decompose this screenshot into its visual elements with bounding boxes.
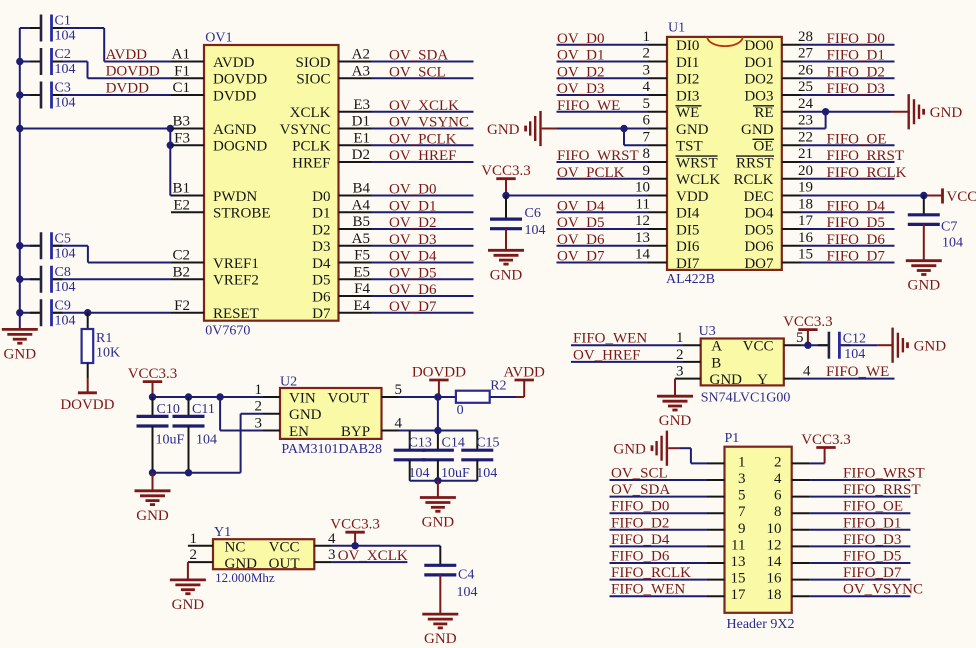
svg-text:FIFO_D4: FIFO_D4 — [827, 198, 886, 214]
svg-text:D5: D5 — [312, 273, 330, 289]
svg-text:VCC3.3: VCC3.3 — [481, 163, 531, 179]
OV1 pin B2 VREF2 — [171, 264, 259, 288]
P1 pin 15 — [610, 565, 746, 587]
wire U2 EN pin3 to VIN — [220, 430, 263, 432]
svg-text:C15: C15 — [476, 436, 499, 451]
svg-text:Y: Y — [757, 372, 768, 388]
wire U1 pin19 to VCC — [801, 195, 924, 197]
svg-text:XCLK: XCLK — [290, 105, 331, 121]
svg-text:C11: C11 — [192, 402, 215, 417]
ground GND below C7 — [906, 259, 942, 262]
svg-text:OV_XCLK: OV_XCLK — [389, 98, 459, 114]
svg-text:GND: GND — [676, 122, 709, 138]
svg-text:2: 2 — [774, 454, 782, 470]
capacitor C3 — [20, 81, 171, 111]
resistor R1 10K — [82, 313, 121, 393]
regulator IC U2 PAM3101DAB28 body — [280, 388, 382, 439]
capacitor C9 — [20, 298, 171, 328]
svg-text:F4: F4 — [354, 281, 370, 297]
OV1 pin C1 DVDD — [171, 80, 256, 104]
svg-text:DI3: DI3 — [676, 88, 699, 104]
svg-text:18: 18 — [798, 196, 813, 212]
OV1 pin D2 HREF / net OV_HREF — [292, 147, 473, 171]
svg-text:11: 11 — [731, 537, 745, 553]
U1 pin 15 DO7 — [744, 247, 894, 272]
svg-text:14: 14 — [635, 247, 651, 263]
U1 pin 17 DO5 — [744, 213, 894, 238]
svg-text:C2: C2 — [55, 47, 71, 62]
svg-text:DO5: DO5 — [744, 222, 773, 238]
svg-text:104: 104 — [55, 29, 76, 44]
svg-text:D4: D4 — [312, 256, 331, 272]
svg-text:2: 2 — [255, 399, 263, 415]
svg-text:C14: C14 — [442, 436, 465, 451]
svg-text:FIFO_WRST: FIFO_WRST — [557, 148, 639, 164]
svg-text:104: 104 — [55, 62, 76, 77]
U1 pin 1 DI0 — [557, 29, 700, 54]
svg-text:104: 104 — [409, 466, 430, 481]
svg-text:4: 4 — [803, 364, 811, 380]
svg-text:A: A — [711, 339, 722, 355]
Y1 pin 3 OUT / net OV_XCLK — [314, 547, 408, 564]
svg-text:OV_D2: OV_D2 — [389, 215, 437, 231]
svg-text:OV_SDA: OV_SDA — [611, 482, 670, 498]
svg-text:9: 9 — [738, 521, 746, 537]
svg-text:8: 8 — [774, 504, 782, 520]
Y1 pin 4 VCC wire — [314, 531, 440, 566]
P1 pin 7 — [610, 499, 747, 521]
svg-text:D7: D7 — [312, 306, 331, 322]
svg-text:GND: GND — [422, 515, 455, 531]
svg-text:PAM3101DAB28: PAM3101DAB28 — [281, 442, 382, 457]
svg-text:FIFO_D7: FIFO_D7 — [827, 249, 886, 265]
junction dot pin6/7 — [620, 125, 627, 132]
svg-text:DO7: DO7 — [744, 256, 774, 272]
capacitor C12 104 — [818, 332, 892, 362]
svg-text:D2: D2 — [312, 222, 330, 238]
svg-text:AVDD: AVDD — [106, 47, 148, 63]
P1 pin 3 — [610, 466, 746, 488]
svg-text:GND: GND — [4, 346, 37, 362]
svg-text:FIFO_D4: FIFO_D4 — [611, 532, 670, 548]
svg-text:A1: A1 — [172, 47, 190, 63]
svg-text:FIFO_D3: FIFO_D3 — [843, 532, 901, 548]
OV1 pin B5 D2 / net OV_D2 — [312, 214, 473, 238]
svg-text:104: 104 — [55, 96, 76, 111]
svg-text:16: 16 — [767, 571, 783, 587]
svg-text:DO1: DO1 — [744, 55, 773, 71]
svg-text:VOUT: VOUT — [328, 390, 370, 406]
svg-text:A4: A4 — [352, 197, 371, 213]
svg-text:EN: EN — [289, 424, 309, 440]
U1 pin 28 DO0 — [744, 29, 894, 54]
U1 pin 25 DO3 — [744, 79, 894, 104]
svg-text:OV_SCL: OV_SCL — [389, 64, 446, 80]
P1 pin 9 — [610, 515, 746, 537]
svg-text:104: 104 — [55, 246, 76, 261]
svg-text:6: 6 — [774, 488, 782, 504]
capacitor C7 104 — [908, 196, 963, 261]
U1 pin 19 DEC — [744, 180, 814, 205]
svg-text:VREF1: VREF1 — [213, 256, 259, 272]
svg-text:Header 9X2: Header 9X2 — [727, 617, 795, 632]
ground GND below C10/C11 — [152, 473, 154, 491]
ground GND below C13-C15 — [437, 481, 439, 498]
svg-text:VCC3.3: VCC3.3 — [128, 366, 178, 382]
U1 pin 12 DI5 — [557, 213, 700, 238]
svg-text:OV_HREF: OV_HREF — [389, 148, 457, 164]
svg-text:OV_D2: OV_D2 — [557, 64, 605, 80]
svg-text:FIFO_D1: FIFO_D1 — [843, 515, 901, 531]
svg-text:OV_D5: OV_D5 — [389, 265, 437, 281]
svg-text:DEC: DEC — [744, 189, 774, 205]
OV1 pin B1 PWDN — [171, 181, 257, 205]
svg-text:3: 3 — [328, 547, 336, 563]
svg-text:RE: RE — [754, 105, 773, 121]
P1 pin 1 — [707, 454, 746, 470]
svg-text:C7: C7 — [941, 220, 957, 235]
svg-text:A2: A2 — [352, 47, 370, 63]
svg-text:VCC3.3: VCC3.3 — [801, 432, 851, 448]
OV1 pin D1 VSYNC / net OV_VSYNC — [280, 114, 474, 138]
svg-text:VSYNC: VSYNC — [280, 122, 331, 138]
svg-text:B1: B1 — [172, 181, 190, 197]
OV1 pin F5 D4 / net OV_D4 — [312, 248, 473, 272]
svg-text:FIFO_D0: FIFO_D0 — [827, 31, 885, 47]
svg-text:DI1: DI1 — [676, 55, 699, 71]
U3 pin 4 Y / net FIFO_WE — [757, 364, 894, 388]
svg-text:GND: GND — [930, 105, 963, 121]
svg-text:TST: TST — [676, 139, 703, 155]
svg-text:VREF2: VREF2 — [213, 273, 259, 289]
svg-text:GND: GND — [487, 122, 520, 138]
ground GND below Y1 — [170, 579, 206, 582]
svg-text:F2: F2 — [174, 298, 190, 314]
svg-text:8: 8 — [643, 146, 651, 162]
ground GND below C4 — [422, 613, 458, 616]
svg-text:GND: GND — [741, 122, 774, 138]
svg-text:2: 2 — [643, 46, 651, 62]
svg-text:0: 0 — [457, 403, 464, 418]
svg-text:AVDD: AVDD — [503, 365, 545, 381]
svg-text:15: 15 — [798, 247, 813, 263]
svg-text:17: 17 — [798, 213, 814, 229]
svg-text:HREF: HREF — [292, 155, 330, 171]
svg-text:WRST: WRST — [676, 155, 718, 171]
svg-text:R1: R1 — [96, 331, 112, 346]
P1 pin 18 — [767, 582, 924, 604]
svg-text:R2: R2 — [490, 379, 506, 394]
svg-text:WCLK: WCLK — [676, 172, 720, 188]
OV1 pin B4 D0 / net OV_D0 — [312, 181, 473, 205]
svg-text:12: 12 — [635, 213, 650, 229]
svg-text:Y1: Y1 — [214, 525, 231, 540]
P1 pin 4 — [774, 466, 925, 488]
svg-text:2: 2 — [676, 347, 684, 363]
svg-text:B: B — [711, 355, 721, 371]
junction dot C9/R1 — [84, 309, 91, 316]
svg-text:E3: E3 — [353, 97, 370, 113]
svg-text:13: 13 — [731, 554, 746, 570]
svg-text:OV_SCL: OV_SCL — [611, 466, 668, 482]
svg-text:DOVDD: DOVDD — [213, 72, 267, 88]
svg-text:VCC: VCC — [269, 539, 300, 555]
U1 pin 7 TST — [643, 129, 703, 154]
U1 pin 18 DO4 — [744, 196, 894, 221]
svg-text:7: 7 — [738, 504, 746, 520]
U1 pin 8 WRST — [557, 146, 718, 171]
svg-text:GND: GND — [225, 556, 258, 572]
svg-text:18: 18 — [767, 587, 782, 603]
svg-text:10: 10 — [635, 180, 650, 196]
OV1 pin C2 VREF1 — [171, 248, 259, 272]
svg-text:OV_D0: OV_D0 — [557, 31, 605, 47]
svg-text:E1: E1 — [353, 130, 370, 146]
wire GND to P1 pin1 — [668, 447, 680, 449]
capacitor C15 104 — [461, 436, 499, 481]
svg-text:C5: C5 — [55, 231, 71, 246]
svg-text:C12: C12 — [843, 332, 866, 347]
oscillator Y1 12.000Mhz body — [213, 539, 314, 569]
svg-text:26: 26 — [798, 62, 814, 78]
svg-text:GND: GND — [659, 413, 692, 429]
svg-text:B4: B4 — [352, 181, 370, 197]
svg-text:C1: C1 — [55, 14, 71, 29]
svg-text:OV_HREF: OV_HREF — [573, 347, 641, 363]
svg-text:FIFO_OE: FIFO_OE — [843, 499, 903, 515]
wire P1 pin2 to VCC3.3 — [809, 462, 825, 464]
ground GND bottom-left — [2, 328, 38, 331]
svg-text:OV_D0: OV_D0 — [389, 182, 437, 198]
svg-text:16: 16 — [798, 230, 814, 246]
memory IC U1 AL422B body — [667, 37, 782, 270]
P1 pin 16 — [767, 565, 911, 587]
svg-text:OV_XCLK: OV_XCLK — [338, 548, 408, 564]
svg-text:C6: C6 — [525, 206, 541, 221]
svg-text:OV_D6: OV_D6 — [557, 232, 605, 248]
OV1 pin E2 STROBE — [171, 197, 271, 221]
junction dot U3 VCC — [804, 342, 811, 349]
svg-text:4: 4 — [395, 415, 403, 431]
P1 pin 12 — [767, 532, 911, 554]
capacitor C6 104 — [490, 196, 546, 251]
svg-text:14: 14 — [767, 554, 783, 570]
svg-text:DI0: DI0 — [676, 38, 699, 54]
capacitor C10 10uF — [137, 397, 185, 473]
svg-text:FIFO_D2: FIFO_D2 — [827, 64, 885, 80]
resistor R2 0 — [438, 379, 524, 419]
ground GND right of U1 — [908, 94, 910, 129]
svg-text:DI2: DI2 — [676, 72, 699, 88]
svg-text:OV_D4: OV_D4 — [557, 198, 605, 214]
power VCC3.3 (U2 VIN) — [143, 380, 162, 383]
junction dots left rail — [16, 58, 23, 65]
svg-text:FIFO_WEN: FIFO_WEN — [573, 331, 647, 347]
svg-text:RRST: RRST — [736, 155, 774, 171]
U1 pin 20 RCLK — [733, 163, 906, 188]
svg-text:AL422B: AL422B — [666, 272, 715, 287]
junction dot bottom rail — [434, 477, 441, 484]
svg-text:DVDD: DVDD — [106, 80, 149, 96]
svg-text:D0: D0 — [312, 189, 330, 205]
svg-text:SIOD: SIOD — [295, 55, 330, 71]
svg-text:GND: GND — [908, 278, 941, 294]
junction dot pin19 — [920, 192, 927, 199]
svg-text:10uF: 10uF — [156, 432, 185, 447]
svg-text:0V7670: 0V7670 — [205, 324, 250, 339]
svg-text:5: 5 — [738, 488, 746, 504]
svg-text:E5: E5 — [353, 264, 370, 280]
ground GND at P1 pin1 — [666, 431, 668, 466]
svg-text:2: 2 — [190, 547, 198, 563]
svg-text:FIFO_RCLK: FIFO_RCLK — [611, 565, 691, 581]
svg-text:104: 104 — [942, 236, 963, 251]
U1 pin 5 WE — [557, 96, 702, 121]
power DOVDD — [429, 379, 448, 382]
svg-text:D3: D3 — [312, 239, 330, 255]
svg-text:DI7: DI7 — [676, 256, 700, 272]
svg-text:U3: U3 — [699, 324, 716, 339]
U1 pin 9 WCLK — [557, 163, 721, 188]
U1 pin 13 DI6 — [557, 230, 700, 255]
svg-text:VCC3.3: VCC3.3 — [783, 314, 833, 330]
power port DOVDD (below R1) — [78, 391, 97, 394]
OV1 pin E3 XCLK / net OV_XCLK — [290, 97, 474, 121]
svg-text:C8: C8 — [55, 265, 71, 280]
svg-text:7: 7 — [643, 129, 651, 145]
OV1 pin F2 RESET — [171, 298, 259, 322]
svg-text:D1: D1 — [352, 114, 370, 130]
OV1 pin A1 AVDD — [171, 47, 255, 71]
U1 pin 10 VDD — [635, 180, 709, 205]
junction dots cap bottoms — [149, 469, 156, 476]
svg-text:DI4: DI4 — [676, 206, 700, 222]
svg-text:3: 3 — [255, 415, 263, 431]
power VCC3.3 (U1 VDD) — [496, 177, 515, 180]
svg-text:U1: U1 — [668, 21, 685, 36]
svg-text:FIFO_WRST: FIFO_WRST — [843, 466, 925, 482]
svg-text:C3: C3 — [55, 81, 71, 96]
OV1 pin A2 SIOD / net OV_SDA — [295, 47, 473, 71]
svg-text:6: 6 — [643, 113, 651, 129]
svg-text:DOVDD: DOVDD — [412, 365, 466, 381]
svg-text:104: 104 — [55, 313, 76, 328]
capacitor C4 104 — [424, 565, 477, 614]
svg-text:SIOC: SIOC — [296, 72, 330, 88]
svg-text:OV_VSYNC: OV_VSYNC — [843, 582, 923, 598]
svg-text:F3: F3 — [174, 130, 190, 146]
svg-text:A3: A3 — [352, 63, 370, 79]
svg-text:104: 104 — [457, 585, 478, 600]
svg-text:FIFO_OE: FIFO_OE — [827, 131, 887, 147]
svg-text:E2: E2 — [173, 197, 190, 213]
P1 pin 8 — [774, 499, 910, 521]
svg-text:DOGND: DOGND — [213, 139, 267, 155]
OV1 pin B3 AGND — [171, 114, 256, 138]
power VCC3.3 (U3) — [798, 328, 817, 331]
svg-text:27: 27 — [798, 46, 814, 62]
svg-text:GND: GND — [914, 339, 947, 355]
svg-text:12: 12 — [767, 537, 782, 553]
svg-text:OV_D7: OV_D7 — [389, 299, 437, 315]
power VCC (right edge) — [941, 188, 944, 203]
P1 pin 5 — [610, 482, 746, 504]
U1 pin 3 DI2 — [557, 62, 700, 87]
power AVDD — [515, 379, 534, 382]
svg-text:20: 20 — [798, 163, 813, 179]
ground GND below U3 — [657, 395, 693, 398]
svg-text:10uF: 10uF — [441, 466, 470, 481]
svg-text:F5: F5 — [354, 248, 370, 264]
svg-text:FIFO_D5: FIFO_D5 — [843, 549, 901, 565]
U1 pin 14 DI7 — [557, 247, 700, 272]
svg-text:FIFO_RRST: FIFO_RRST — [827, 148, 905, 164]
svg-text:1: 1 — [676, 330, 684, 346]
svg-text:C9: C9 — [55, 298, 71, 313]
OV1 pin F4 D6 / net OV_D6 — [312, 281, 473, 305]
svg-text:12.000Mhz: 12.000Mhz — [215, 570, 275, 585]
svg-text:C2: C2 — [172, 248, 190, 264]
U3 pin 2 B / net OV_HREF — [571, 347, 721, 371]
wire cap bottom rail — [410, 480, 478, 482]
OV1 pin E4 D7 / net OV_D7 — [312, 298, 473, 322]
svg-text:PWDN: PWDN — [213, 189, 257, 205]
svg-text:104: 104 — [525, 223, 546, 238]
svg-text:1: 1 — [190, 531, 198, 547]
svg-text:13: 13 — [635, 230, 650, 246]
svg-text:VCC3.3: VCC3.3 — [330, 517, 380, 533]
ground GND right of C12 — [891, 328, 893, 363]
wire VCC3.3 to U1 pin10 — [505, 179, 507, 196]
capacitor C2 — [20, 47, 88, 78]
capacitor C8 — [20, 265, 171, 295]
svg-text:5: 5 — [796, 330, 804, 346]
svg-text:OV_SDA: OV_SDA — [389, 48, 448, 64]
junction dot VDD — [502, 192, 509, 199]
wire VIN rail — [153, 396, 264, 398]
junction dot DOVDD — [434, 393, 441, 400]
svg-text:VDD: VDD — [676, 189, 709, 205]
U1 pin 26 DO2 — [744, 62, 894, 87]
svg-text:1: 1 — [255, 382, 263, 398]
svg-text:DI6: DI6 — [676, 239, 700, 255]
svg-text:AGND: AGND — [213, 122, 256, 138]
svg-text:104: 104 — [476, 466, 497, 481]
P1 pin 13 — [610, 549, 746, 571]
svg-text:DO6: DO6 — [744, 239, 774, 255]
svg-text:5: 5 — [643, 96, 651, 112]
wire BYP rail — [382, 430, 399, 432]
svg-text:9: 9 — [643, 163, 651, 179]
U1 pin 2 DI1 — [557, 46, 700, 71]
svg-text:1: 1 — [738, 454, 746, 470]
svg-text:D2: D2 — [352, 147, 370, 163]
svg-text:OUT: OUT — [269, 556, 300, 572]
svg-text:F1: F1 — [174, 63, 190, 79]
svg-text:E4: E4 — [353, 298, 370, 314]
svg-text:AVDD: AVDD — [213, 55, 255, 71]
wire U1 pins 24/23 to GND — [801, 111, 892, 113]
svg-text:10K: 10K — [96, 346, 120, 361]
U1 pin 27 DO1 — [744, 46, 894, 71]
junction dot BYP/C14 — [434, 427, 441, 434]
svg-text:FIFO_D2: FIFO_D2 — [611, 515, 669, 531]
svg-text:D6: D6 — [312, 289, 331, 305]
svg-text:VCC: VCC — [946, 189, 976, 205]
svg-text:OV_D1: OV_D1 — [557, 48, 605, 64]
svg-text:FIFO_D6: FIFO_D6 — [611, 549, 670, 565]
op IC OV1 OV7670 body — [204, 45, 339, 321]
